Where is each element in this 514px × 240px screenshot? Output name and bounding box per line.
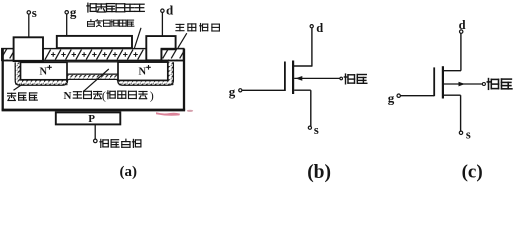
- svg-text:g: g: [229, 84, 236, 99]
- wire d lead: [161, 12, 163, 36]
- substrate body left border: [2, 49, 4, 111]
- svg-text:(a): (a): [120, 164, 138, 180]
- (c) substrate terminal dot: [482, 83, 485, 86]
- svg-text:s: s: [466, 127, 471, 141]
- drain metal electrode: [146, 36, 175, 60]
- (b) terminal s: [308, 123, 319, 137]
- svg-text:d: d: [166, 2, 174, 17]
- label (c) 衬底 substrate: [487, 79, 512, 90]
- svg-text:): ): [150, 89, 154, 103]
- source metal electrode: [14, 37, 43, 61]
- P contact region: [56, 112, 121, 124]
- wire g lead: [66, 14, 68, 36]
- transistor (c): terminal g: [388, 90, 401, 105]
- label N-type channel (initial channel): [64, 89, 154, 103]
- N channel upper boundary line: [68, 61, 118, 63]
- (c) channel bar: [442, 66, 444, 98]
- (c) substrate arrow (points away: P-type): [459, 82, 465, 87]
- terminal d: [161, 2, 174, 17]
- svg-text:N: N: [139, 67, 147, 78]
- substrate lead terminal dot: [94, 139, 98, 143]
- depletion layer hatch: [15, 62, 173, 85]
- wire pointer to doped insulator: [134, 28, 141, 49]
- (b) gate electrode bar: [284, 62, 286, 92]
- N channel top line (under oxide): [68, 73, 118, 75]
- gate metal electrode: [57, 36, 132, 48]
- label doped-insulator text line1 掺杂后具有正: [87, 3, 144, 12]
- svg-text:N: N: [64, 90, 72, 102]
- svg-text:d: d: [459, 18, 466, 32]
- wire (b) drain stub: [294, 65, 312, 67]
- (b) substrate terminal dot: [340, 77, 343, 80]
- (c) gate electrode bar: [433, 67, 435, 96]
- svg-text:g: g: [70, 5, 77, 20]
- oxide layer left piece: [2, 49, 14, 61]
- (c) terminal d: [459, 18, 466, 33]
- wire pointer depletion: [14, 84, 23, 90]
- N+ source region: [21, 62, 68, 80]
- label (b) 衬底 substrate: [344, 74, 366, 84]
- svg-text:N: N: [40, 67, 48, 78]
- terminal g: [65, 5, 77, 20]
- svg-text:(: (: [102, 89, 106, 103]
- wire substrate lead: [94, 124, 96, 139]
- wire (b) source stub: [294, 89, 311, 91]
- label 二氧化硅 SiO2: [176, 24, 220, 32]
- wire s lead: [28, 14, 30, 37]
- substrate body bottom border: [2, 109, 186, 112]
- substrate body right border: [183, 49, 185, 111]
- wire (c) gate lead: [400, 95, 434, 97]
- oxide layer with positive ions: [43, 49, 146, 61]
- terminal s: [27, 5, 37, 20]
- (c) terminal s: [459, 127, 471, 141]
- depletion layer boundary outline: [15, 62, 173, 85]
- wire (b) substrate lead: [294, 77, 340, 79]
- wire (c) substrate lead: [444, 83, 483, 85]
- (b) terminal d: [310, 21, 323, 35]
- transistor (b): terminal g: [229, 84, 242, 99]
- oxide layer right piece (SiO2): [161, 49, 183, 61]
- svg-text:s: s: [314, 123, 319, 137]
- wire pointer to SiO2: [178, 33, 187, 48]
- svg-text:P: P: [88, 113, 95, 125]
- svg-text:(c): (c): [462, 161, 483, 182]
- svg-text:s: s: [32, 5, 37, 20]
- label 衬底引线 substrate lead: [100, 139, 141, 147]
- (b) channel bar: [292, 61, 294, 95]
- red scan smudge: [156, 112, 180, 116]
- wire (c) drain stub: [443, 70, 461, 72]
- N+ drain region: [118, 62, 168, 80]
- (b) substrate arrow (points to channel: N-type): [295, 76, 302, 81]
- wire (c) source stub: [443, 94, 460, 96]
- substrate body top line: [2, 60, 184, 62]
- svg-text:g: g: [388, 90, 395, 105]
- label doped-insulator text line2 离子的绝缘层: [88, 20, 134, 27]
- wire (b) gate lead: [242, 89, 285, 91]
- svg-text:(b): (b): [307, 162, 331, 183]
- wire pointer channel: [83, 69, 109, 92]
- label 耗尽层 depletion layer: [8, 93, 38, 101]
- svg-text:d: d: [316, 21, 323, 35]
